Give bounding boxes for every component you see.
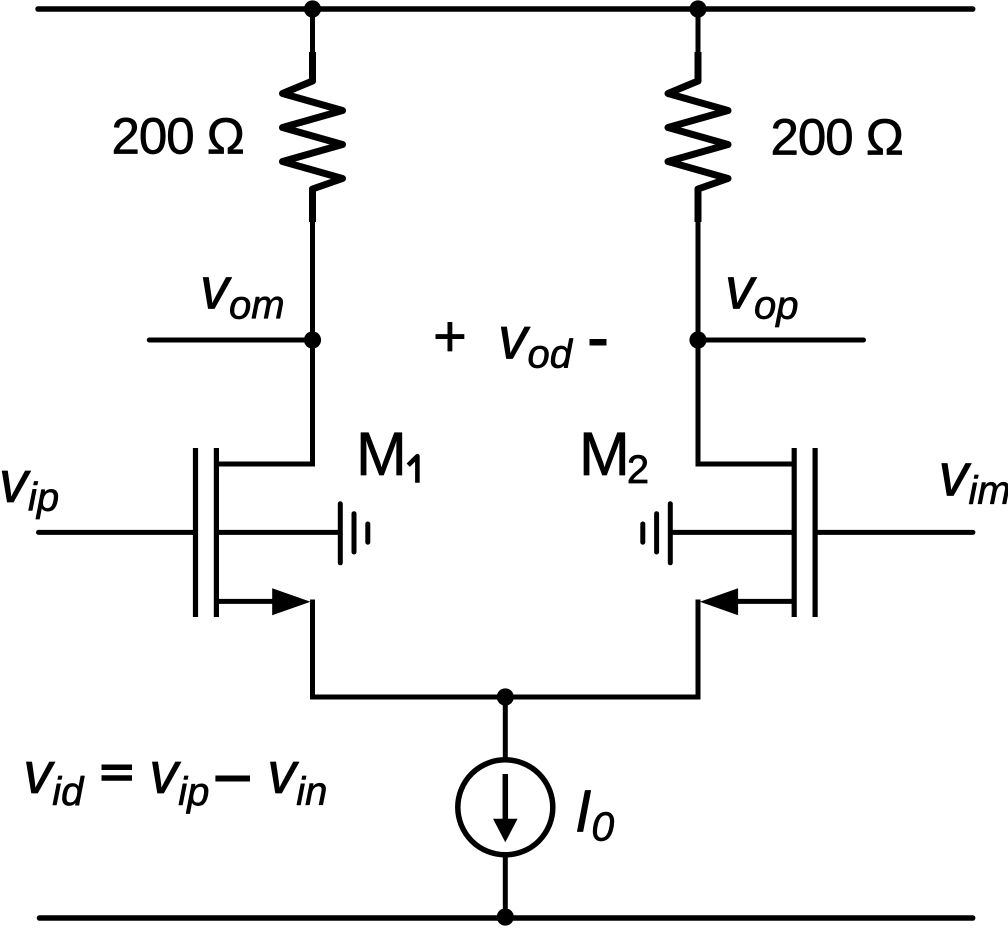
node: bottom junction dot — [497, 908, 514, 925]
svg-text:vid: vid — [23, 741, 85, 814]
wire: M2 body lead — [673, 530, 795, 535]
svg-text:vop: vop — [725, 257, 799, 328]
VDD top rail — [38, 6, 973, 12]
wire: M1 body lead — [216, 530, 338, 535]
label M1 — [356, 420, 417, 488]
label vod minus sign — [590, 339, 607, 346]
ground bottom rail — [40, 915, 973, 921]
label equation equals — [102, 767, 133, 778]
wire: vom stub — [149, 338, 312, 343]
wire: vip gate lead M1 — [39, 530, 194, 535]
svg-text:vip: vip — [149, 741, 209, 814]
M2 bulk ac-ground symbol — [643, 504, 671, 563]
svg-text:M: M — [356, 420, 407, 488]
node: top-right junction dot — [689, 0, 706, 17]
wire: vim to M2 drain — [698, 340, 794, 464]
wire: VDD to R2 — [696, 9, 701, 60]
wire: tail node to current source — [503, 697, 508, 760]
node: top-left junction dot — [304, 0, 321, 17]
wire: current source to ground rail — [503, 854, 508, 918]
wire: vom to M1 drain — [216, 340, 312, 464]
transistor M2 channel bar — [792, 448, 797, 617]
svg-text:vod: vod — [498, 306, 574, 377]
svg-text:vim: vim — [939, 442, 1008, 514]
wire: VDD to R1 — [310, 9, 315, 60]
current source I0 circle — [458, 760, 553, 855]
wire: vop stub — [698, 338, 864, 343]
M1 bulk ac-ground symbol — [340, 504, 368, 563]
node vom junction dot — [304, 331, 321, 348]
resistor R1 — [283, 52, 343, 222]
svg-text:200 Ω: 200 Ω — [771, 109, 903, 166]
transistor M1 channel bar — [214, 448, 219, 617]
M2 source stub with arrow — [700, 588, 794, 615]
label equation minus — [215, 776, 250, 782]
M1 source stub with arrow — [216, 588, 310, 615]
transistor M2 gate bar — [812, 448, 817, 617]
svg-text:vom: vom — [200, 257, 285, 328]
wire: M1 source to tail node — [313, 600, 506, 698]
transistor M1 gate bar — [193, 448, 198, 617]
svg-text:200 Ω: 200 Ω — [112, 108, 244, 165]
node vop junction dot — [689, 331, 706, 348]
svg-text:+: + — [433, 304, 467, 369]
node tail junction dot — [497, 688, 514, 705]
resistor R2 — [668, 52, 728, 222]
current source I0 arrow — [493, 774, 518, 842]
svg-text:I0: I0 — [575, 779, 614, 850]
wire: R1 to node vom — [310, 218, 315, 340]
wire: M2 source to tail node — [505, 600, 698, 698]
wire: vim gate lead M2 — [818, 530, 973, 535]
svg-text:vip: vip — [0, 450, 59, 520]
svg-text:vin: vin — [267, 741, 327, 814]
wire: R2 to node vop — [696, 218, 701, 340]
svg-text:M2: M2 — [579, 420, 649, 492]
